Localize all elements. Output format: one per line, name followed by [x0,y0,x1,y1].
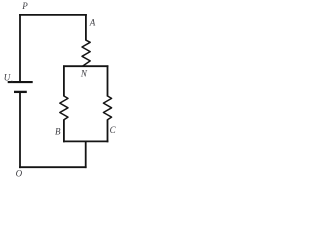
wire: bottom bar joining B and C [63,140,108,142]
wire: C branch bottom lead [107,120,109,143]
wire: right vertical (A down to resistor R1) [85,14,87,40]
wire: B branch top lead [63,65,65,96]
wire: bottom horizontal (O to center tap) [19,166,87,168]
wire: center tap from bottom bar down [85,141,87,169]
wire: battery - lead down to O [19,92,21,168]
svg-text:A: A [89,17,96,27]
resistor R1 (between A and N) [82,40,90,66]
svg-text:B: B [55,127,61,137]
wire: node N top bar [63,65,108,67]
battery U: short negative plate [14,91,27,93]
battery U: long positive plate [8,81,33,83]
svg-text:C: C [110,125,117,135]
svg-text:O: O [16,169,23,179]
resistor B [60,96,68,120]
resistor C [103,96,111,120]
wire: left vertical (P down to battery +) [19,14,21,81]
wire: top horizontal (P to A) [19,14,87,16]
wire: C branch top lead [107,65,109,96]
svg-text:N: N [80,69,88,79]
svg-text:P: P [21,1,28,11]
wire: B branch bottom lead [63,120,65,143]
